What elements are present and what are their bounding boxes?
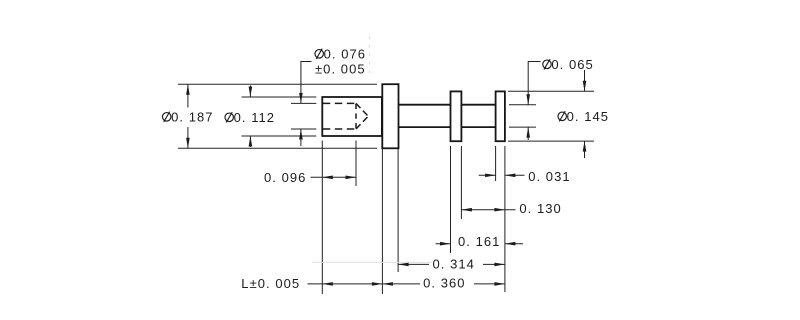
vertical ext body-left	[321, 141, 323, 295]
diameter symbol for 0.076	[315, 49, 324, 59]
arrow 0.096 right	[346, 176, 357, 180]
diameter symbol for 0.065	[543, 59, 552, 69]
arrow dia112 top down	[249, 87, 253, 98]
vertical ext flangeF1-right	[397, 148, 399, 272]
diameter symbol for 0.145	[558, 111, 567, 121]
ext line dia112 top	[242, 96, 317, 98]
dim line 0.031	[479, 174, 525, 176]
svg-text:0. 031: 0. 031	[528, 169, 570, 184]
svg-text:0. 187: 0. 187	[171, 109, 213, 124]
leader dia065	[528, 62, 540, 141]
ext line dia065 bottom	[509, 126, 536, 128]
arrow dia187 up	[186, 84, 190, 95]
arrow 0.031 right-pointing	[485, 174, 496, 178]
ext line dia145 top	[508, 90, 594, 92]
arrow 0.031 left-pointing	[505, 174, 516, 178]
ext line dia076 top	[291, 102, 316, 104]
arrow 0.314 right	[494, 263, 505, 267]
vertical ext hole-end	[355, 141, 357, 187]
ext line dia065 top	[509, 104, 536, 106]
shaft top wire (segment 1)	[399, 104, 451, 106]
arrow dia145 down	[583, 81, 587, 92]
flange F2 (small, middle)	[451, 91, 462, 141]
dim line dia145 tails	[584, 70, 586, 158]
arrow L left	[322, 282, 333, 286]
svg-text:0. 076: 0. 076	[324, 46, 366, 61]
ext line dia187 top	[178, 83, 377, 85]
ext line dia145 bottom	[508, 140, 594, 142]
hidden hole (dashed)	[323, 103, 368, 129]
ext line dia112 bottom	[242, 135, 317, 137]
arrow L right	[372, 282, 383, 286]
svg-text:0. 096: 0. 096	[264, 170, 306, 185]
shaft bottom wire (segment 1)	[399, 126, 451, 128]
ext line dia076 bottom	[291, 128, 316, 130]
flange F1 (large)	[382, 84, 398, 148]
dim line 0.130	[461, 209, 515, 211]
svg-text:0. 065: 0. 065	[551, 57, 593, 72]
dim line 0.360	[382, 283, 505, 285]
arrow 0.096 left	[322, 176, 333, 180]
arrow 0.314 left	[398, 263, 409, 267]
arrow 0.161 left-pointing	[505, 242, 516, 246]
scan artifact faint dotted vertical	[369, 37, 371, 77]
vertical ext flangeF3-right	[504, 146, 506, 292]
arrow dia187 down	[186, 138, 190, 149]
vertical ext flangeF2-right	[460, 146, 462, 219]
arrow 0.161 right-pointing	[440, 242, 451, 246]
dim line dia187	[187, 84, 189, 148]
vertical ext flangeF1-left	[381, 148, 383, 294]
shaft top wire (segment 2)	[461, 104, 495, 106]
dim line 0.161	[436, 243, 523, 245]
arrow dia145 up	[583, 141, 587, 152]
svg-text:0. 145: 0. 145	[567, 109, 609, 124]
arrow dia065 down	[526, 94, 530, 105]
arrow dia065 up	[526, 127, 530, 138]
dim line dia112 arrows tails	[249, 86, 251, 148]
arrow dia076 bottom up	[299, 129, 303, 140]
ext line dia187 bottom	[178, 147, 377, 149]
svg-text:0. 161: 0. 161	[458, 234, 500, 249]
arrow 0.360 right	[494, 282, 505, 286]
dim line 0.314	[398, 263, 505, 265]
arrow 0.360 left	[382, 282, 393, 286]
arrow 0.130 right	[494, 208, 505, 212]
arrowheads	[186, 81, 586, 286]
dimension linework	[178, 62, 594, 295]
part outline group	[322, 84, 505, 148]
svg-text:±0. 005: ±0. 005	[315, 61, 366, 76]
scan artifact faint line	[312, 261, 432, 263]
leader dia076	[301, 62, 312, 147]
arrow 0.130 left	[461, 208, 472, 212]
diameter symbol for 0.187	[162, 112, 171, 122]
arrow dia112 bottom up	[249, 136, 253, 147]
vertical ext flangeF2-left	[450, 146, 452, 253]
dim line 0.096	[311, 176, 357, 178]
svg-text:0. 360: 0. 360	[423, 275, 465, 290]
svg-text:0. 112: 0. 112	[234, 110, 275, 125]
body (left cylinder)	[322, 97, 382, 136]
svg-text:0. 314: 0. 314	[433, 256, 475, 271]
diameter symbol for 0.112	[225, 112, 234, 122]
dim line L	[308, 283, 383, 285]
svg-text:L±0. 005: L±0. 005	[241, 276, 300, 291]
shaft bottom wire (segment 2)	[461, 126, 495, 128]
arrow dia076 top down	[299, 93, 303, 104]
flange F3 (small, right end)	[496, 91, 505, 141]
svg-text:0. 130: 0. 130	[519, 201, 561, 216]
vertical ext flangeF3-left	[495, 146, 497, 181]
